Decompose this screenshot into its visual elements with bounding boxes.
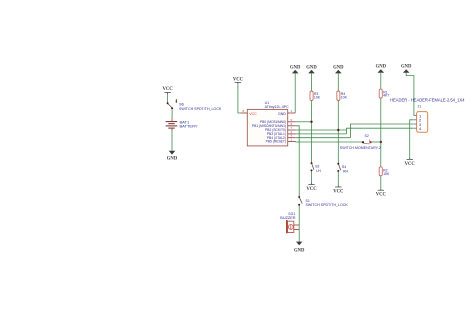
IC U1 ATtiny12L-4PC [247, 101, 289, 146]
header J1 HEADER-FEMALE-2.54_1X4 [390, 98, 465, 133]
svg-text:PB5 (RESET): PB5 (RESET) [266, 140, 286, 144]
svg-text:VCC: VCC [376, 192, 387, 197]
svg-text:VCC: VCC [163, 87, 174, 92]
svg-text:4K7: 4K7 [383, 94, 389, 98]
pin 1 PB5 stub [288, 138, 296, 142]
switch S4 RH [337, 163, 348, 174]
wire PB5 to S2 [296, 141, 363, 143]
power symbol VCC (below S4) [333, 186, 344, 195]
svg-text:10K: 10K [314, 95, 321, 99]
pin 5 PB0 stub [288, 118, 296, 122]
wire S6 to BAT1 [171, 109, 173, 118]
svg-text:HEADER - HEADER-FEMALE-2.54_1X: HEADER - HEADER-FEMALE-2.54_1X4 [390, 98, 465, 103]
resistor R3 10K [310, 91, 321, 101]
svg-text:SWITCH SPDT/TH_LOCK: SWITCH SPDT/TH_LOCK [179, 107, 222, 111]
junction S2/R1/R2 [380, 141, 382, 143]
power symbol VCC (below header) [405, 158, 416, 167]
svg-text:15K: 15K [383, 172, 390, 176]
svg-text:S6: S6 [179, 102, 185, 107]
resistor R1 4K7 [379, 89, 389, 98]
svg-text:GND: GND [290, 66, 301, 71]
power symbol VCC (IC supply) [233, 78, 244, 85]
ground (R1 top) [376, 65, 387, 90]
svg-text:ATtiny12L-4PC: ATtiny12L-4PC [265, 105, 290, 109]
svg-text:GND: GND [278, 112, 286, 116]
wire header pin3 to PB4 [350, 124, 413, 138]
wire VCC to S6 [167, 94, 169, 102]
svg-text:SWITCH SPDT/TH_LOCK: SWITCH SPDT/TH_LOCK [306, 203, 349, 207]
svg-text:S2: S2 [365, 134, 369, 138]
wire header pin4 to PB3 [347, 128, 414, 134]
svg-text:VCC: VCC [249, 112, 257, 116]
wire PB1 to S1/buzzer net [296, 126, 299, 196]
svg-text:BATTERY: BATTERY [180, 124, 198, 129]
junction PB0/R3/S3 [310, 121, 312, 123]
wire header pin2 to VCC [410, 120, 414, 159]
svg-text:VCC: VCC [233, 78, 244, 83]
switch S6 SWITCH SPDT/TH_LOCK [167, 99, 222, 111]
pin 2 PB3 stub [288, 130, 296, 134]
wire PB2 to net [296, 129, 347, 131]
svg-text:J1: J1 [418, 104, 422, 108]
wire PB0 to net [296, 121, 312, 123]
power symbol VCC (below S3) [306, 183, 317, 192]
ground (R4 top) [333, 66, 344, 91]
svg-text:GND: GND [333, 66, 344, 71]
junction PB2/R4/S4 [337, 129, 339, 131]
svg-text:LH: LH [316, 169, 321, 173]
svg-text:S4: S4 [342, 165, 346, 169]
ground (buzzer branch) [294, 242, 305, 254]
pin 4 GND stub [288, 109, 296, 113]
svg-text:RH: RH [343, 170, 349, 174]
svg-text:VCC: VCC [306, 187, 317, 192]
wire PB3 [296, 133, 347, 135]
battery BAT1 [166, 118, 198, 131]
svg-text:S3: S3 [315, 164, 319, 168]
resistor R4 10K [337, 91, 348, 101]
wire R2 to VCC [380, 176, 382, 190]
resistor R2 15K [379, 167, 390, 176]
wire R3 to S3 (net PB0) [311, 101, 313, 163]
pin 7 PB2 stub [288, 126, 296, 130]
ground (IC GND pin) [290, 66, 301, 113]
ground (header pin1) [401, 65, 414, 116]
svg-text:10K: 10K [341, 95, 348, 99]
svg-text:GND: GND [167, 156, 178, 161]
switch S3 LH [311, 162, 322, 173]
buzzer SG1 [280, 212, 299, 233]
pin 6 PB1 stub [288, 122, 296, 126]
svg-text:GND: GND [401, 65, 412, 70]
svg-text:GND: GND [376, 65, 387, 70]
svg-text:VCC: VCC [405, 162, 416, 167]
switch S1 SWITCH SPDT/TH_LOCK [298, 196, 348, 207]
ground (battery branch) [167, 151, 178, 162]
pin 8 VCC stub [241, 109, 248, 113]
ground (R3 top) [306, 66, 317, 91]
wire VCC to U1 pin 8 [238, 84, 241, 113]
power symbol VCC (below R2) [376, 189, 387, 197]
power symbol VCC (battery branch top) [163, 87, 174, 94]
pin 3 PB4 stub [288, 134, 296, 138]
wire PB4 [296, 137, 351, 139]
wire S4 to VCC [337, 172, 339, 187]
wire R4 to S4 (net PB2) [337, 101, 339, 164]
svg-text:VCC: VCC [333, 189, 344, 194]
switch S2 SWITCH MOMENTARY-2 [340, 134, 381, 150]
wire R1 to R2 (net PB5) [380, 98, 382, 167]
wire BAT1 to GND [171, 131, 173, 151]
svg-text:BUZZER: BUZZER [280, 216, 295, 220]
svg-text:GND: GND [306, 66, 317, 71]
svg-text:SWITCH MOMENTARY-2: SWITCH MOMENTARY-2 [340, 146, 381, 150]
wire S2 to junction [371, 141, 380, 143]
wire S3 to VCC [311, 171, 313, 184]
svg-text:GND: GND [294, 249, 305, 254]
wire S1 to buzzer/GND [298, 206, 300, 242]
